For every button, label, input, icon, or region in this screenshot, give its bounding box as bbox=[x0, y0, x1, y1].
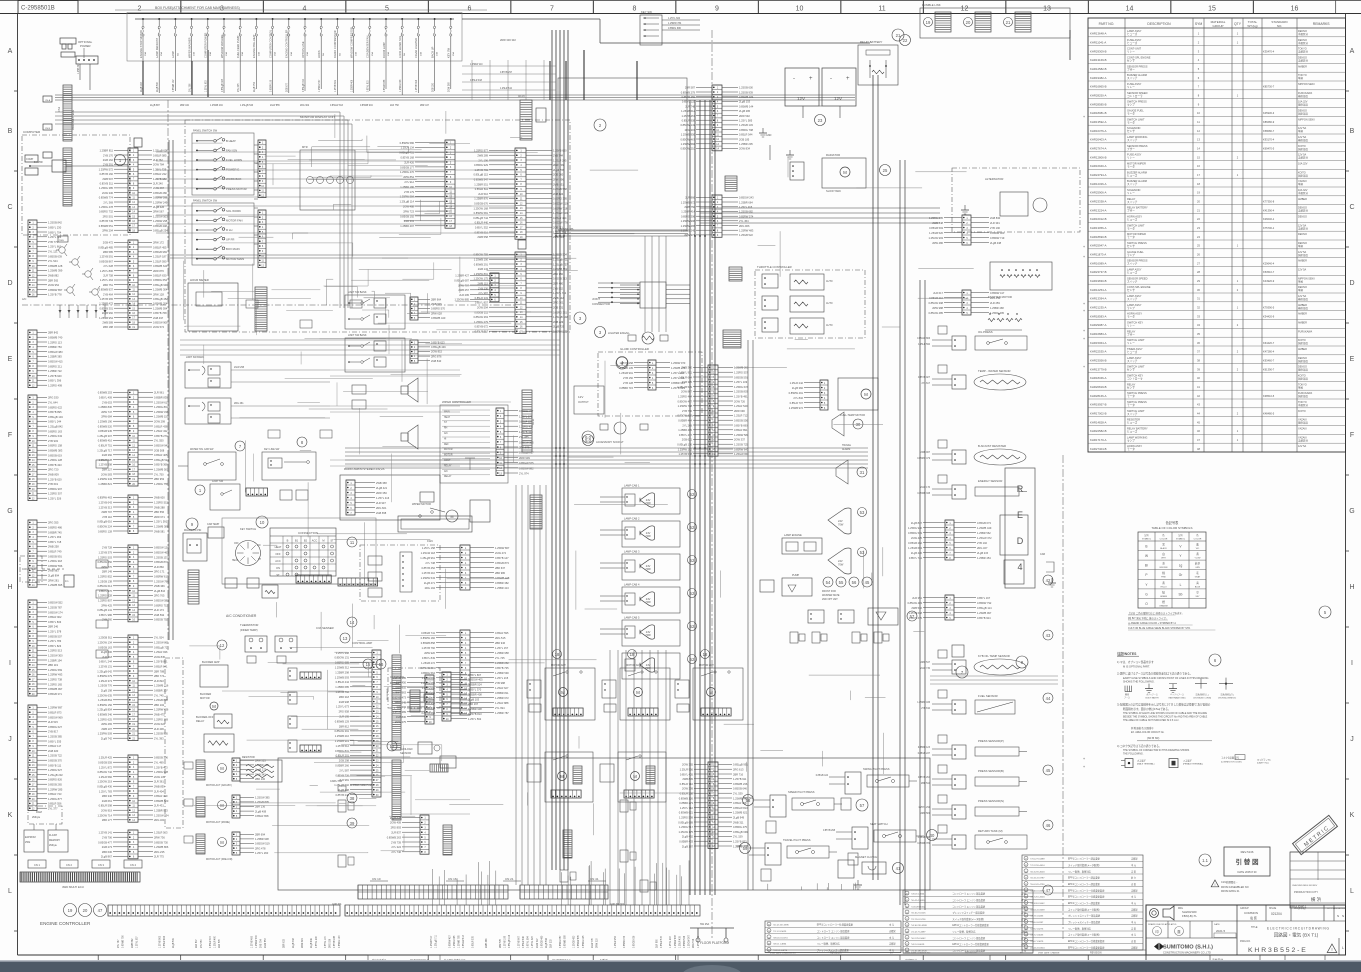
svg-text:NIPPON SEIKI: NIPPON SEIKI bbox=[1298, 118, 1315, 121]
svg-text:黒: 黒 bbox=[1162, 543, 1165, 547]
svg-text:1.25YL 806: 1.25YL 806 bbox=[100, 269, 114, 273]
svg-text:5: 5 bbox=[385, 6, 389, 13]
svg-text:0.85BR 811: 0.85BR 811 bbox=[495, 691, 509, 695]
svg-text:0.85BR 753: 0.85BR 753 bbox=[48, 345, 62, 349]
svg-text:0.85YB 945: 0.85YB 945 bbox=[334, 935, 336, 948]
svg-text:1.25WB 153: 1.25WB 153 bbox=[154, 415, 169, 419]
svg-text:RESISTOR: RESISTOR bbox=[242, 756, 255, 759]
svg-text:0.85LR 464: 0.85LR 464 bbox=[164, 935, 166, 948]
svg-text:M: M bbox=[220, 766, 224, 771]
svg-text:Sb: Sb bbox=[1179, 592, 1183, 596]
svg-text:2YL 750: 2YL 750 bbox=[154, 472, 164, 476]
svg-text:2RW 581: 2RW 581 bbox=[920, 813, 930, 815]
svg-text:15A: 15A bbox=[452, 52, 455, 56]
svg-text:0.85RG 622: 0.85RG 622 bbox=[48, 405, 63, 409]
svg-text:LOCK LEVER SOL: LOCK LEVER SOL bbox=[398, 35, 402, 58]
svg-text:M: M bbox=[843, 170, 847, 175]
svg-text:1.25GB 272: 1.25GB 272 bbox=[421, 661, 435, 665]
svg-text:ENGINE CONTROLLER: ENGINE CONTROLLER bbox=[285, 29, 289, 58]
svg-text:手配区分: 手配区分 bbox=[1298, 438, 1309, 442]
svg-text:KHR16089-A: KHR16089-A bbox=[1090, 261, 1107, 265]
svg-text:0.85YB 452: 0.85YB 452 bbox=[421, 566, 435, 570]
svg-text:2RG 966: 2RG 966 bbox=[739, 224, 750, 228]
svg-text:センサ: センサ bbox=[1127, 244, 1135, 248]
svg-text:ブザー: ブザー bbox=[1127, 67, 1135, 71]
svg-text:1.25GB 803: 1.25GB 803 bbox=[734, 390, 748, 394]
svg-text:2GW 622: 2GW 622 bbox=[154, 722, 166, 726]
svg-text:2LR 173: 2LR 173 bbox=[154, 608, 164, 612]
svg-text:PRESS MOTOR: PRESS MOTOR bbox=[226, 187, 247, 191]
svg-text:70W: 70W bbox=[645, 633, 651, 637]
svg-text:2YB 754: 2YB 754 bbox=[261, 938, 263, 948]
svg-text:断面積を示す。図示の他は0.5sqである。: 断面積を示す。図示の他は0.5sqである。 bbox=[1123, 707, 1171, 711]
svg-text:1.25GB 612: 1.25GB 612 bbox=[681, 109, 695, 113]
svg-text:黄: 黄 bbox=[1196, 552, 1199, 556]
svg-text:2LR 404: 2LR 404 bbox=[154, 789, 164, 793]
svg-text:2WB 289: 2WB 289 bbox=[477, 154, 488, 158]
svg-text:0.85WB 988: 0.85WB 988 bbox=[564, 935, 566, 948]
svg-text:A: A bbox=[8, 48, 13, 55]
svg-text:0.85YB 368: 0.85YB 368 bbox=[154, 463, 168, 467]
svg-text:センサ: センサ bbox=[1127, 368, 1135, 372]
svg-text:HI: HI bbox=[444, 438, 447, 440]
svg-text:0.85LgB 689: 0.85LgB 689 bbox=[678, 820, 693, 824]
svg-text:LAMP-CAB 1: LAMP-CAB 1 bbox=[624, 484, 640, 488]
svg-text:1.25GB 725: 1.25GB 725 bbox=[734, 443, 748, 447]
svg-text:1.25LR 425: 1.25LR 425 bbox=[99, 756, 113, 760]
svg-text:OFF: OFF bbox=[234, 543, 239, 545]
svg-text:52: 52 bbox=[690, 657, 695, 662]
svg-text:W-PRES SIDE PUMP: W-PRES SIDE PUMP bbox=[350, 784, 374, 787]
svg-text:0.85WB 263: 0.85WB 263 bbox=[387, 835, 402, 839]
svg-text:2LgB 960: 2LgB 960 bbox=[102, 311, 114, 315]
svg-text:1.25WB 919: 1.25WB 919 bbox=[335, 739, 350, 743]
svg-text:2LR 351: 2LR 351 bbox=[912, 596, 922, 600]
svg-text:0.85WB 346: 0.85WB 346 bbox=[98, 713, 113, 717]
svg-text:2YL 974: 2YL 974 bbox=[519, 472, 529, 476]
svg-text:2RW 128: 2RW 128 bbox=[153, 292, 164, 296]
svg-text:15: 15 bbox=[1208, 6, 1216, 13]
svg-text:1.25RW 996: 1.25RW 996 bbox=[681, 219, 696, 223]
svg-text:DWN DATE DRAWNG NO: DWN DATE DRAWNG NO bbox=[770, 952, 796, 955]
svg-text:4WD MULTI ECU: 4WD MULTI ECU bbox=[62, 885, 84, 889]
svg-text:MAGNETIC PIN: MAGNETIC PIN bbox=[184, 529, 202, 532]
svg-text:0.85LgB 721: 0.85LgB 721 bbox=[154, 645, 169, 649]
svg-text:1.25YL 260: 1.25YL 260 bbox=[255, 851, 269, 855]
svg-text:ISSUE: ISSUE bbox=[1269, 907, 1277, 910]
svg-text:C-2958501B: C-2958501B bbox=[21, 6, 55, 12]
svg-text:2LgB 729: 2LgB 729 bbox=[553, 325, 565, 329]
svg-text:DRAWN CHECKD APVD APVD: DRAWN CHECKD APVD APVD bbox=[1148, 923, 1177, 926]
svg-text:2YL 393: 2YL 393 bbox=[154, 737, 164, 741]
svg-text:2WB 258: 2WB 258 bbox=[48, 545, 59, 549]
svg-text:10A: 10A bbox=[193, 52, 196, 56]
svg-text:PANEL SWITCH SW: PANEL SWITCH SW bbox=[193, 129, 218, 133]
svg-text:2GW 807: 2GW 807 bbox=[681, 390, 693, 394]
svg-text:2YB 817: 2YB 817 bbox=[48, 730, 59, 734]
svg-text:38: 38 bbox=[350, 796, 355, 801]
svg-text:0.85LgB 310: 0.85LgB 310 bbox=[303, 78, 305, 92]
svg-text:B1: B1 bbox=[295, 539, 299, 543]
svg-text:I: I bbox=[1351, 660, 1353, 667]
svg-text:0.85GB 593: 0.85GB 593 bbox=[929, 226, 943, 230]
svg-text:RADIO AM/FM STEREO 24V,2A: RADIO AM/FM STEREO 24V,2A bbox=[344, 467, 385, 471]
svg-text:1.25LgB 114: 1.25LgB 114 bbox=[399, 200, 414, 204]
svg-text:国産部品: 国産部品 bbox=[1298, 112, 1309, 116]
svg-text:E L E C T R I C C I R C U I T: E L E C T R I C C I R C U I T D R A W I … bbox=[1267, 927, 1330, 931]
svg-text:AUTO: AUTO bbox=[826, 324, 833, 327]
svg-text:0.85LR 743: 0.85LR 743 bbox=[48, 792, 62, 796]
svg-text:0.85YB 768: 0.85YB 768 bbox=[153, 311, 167, 315]
svg-text:準拠: 準拠 bbox=[1298, 129, 1304, 133]
svg-text:MAGNET CLUTCH: MAGNET CLUTCH bbox=[855, 855, 877, 859]
svg-text:!: ! bbox=[1215, 883, 1216, 887]
svg-text:ON: ON bbox=[276, 566, 280, 570]
svg-text:A/C: A/C bbox=[444, 432, 448, 435]
svg-text:2LgB 187: 2LgB 187 bbox=[682, 844, 694, 848]
svg-text:KHR12326-A: KHR12326-A bbox=[1090, 182, 1107, 186]
svg-text:色記号表: 色記号表 bbox=[1166, 520, 1180, 525]
svg-text:K48480-5: K48480-5 bbox=[1263, 412, 1275, 416]
svg-text:HEAT: HEAT bbox=[275, 545, 282, 549]
svg-text:WIPER MOTOR: WIPER MOTOR bbox=[412, 502, 431, 506]
svg-text:KHR21235-A: KHR21235-A bbox=[1090, 306, 1107, 310]
svg-text:DWN DATE CHANGE: DWN DATE CHANGE bbox=[1038, 952, 1060, 955]
svg-text:HORN: HORN bbox=[317, 50, 321, 58]
svg-text:2RG 478: 2RG 478 bbox=[255, 846, 266, 850]
svg-text:45: 45 bbox=[865, 580, 870, 585]
svg-text:J: J bbox=[1350, 736, 1354, 743]
svg-text:0.85YL 823: 0.85YL 823 bbox=[48, 644, 62, 648]
svg-text:2BR 788: 2BR 788 bbox=[154, 669, 165, 673]
svg-text:0.85RG 732: 0.85RG 732 bbox=[99, 210, 114, 214]
svg-text:リレー: リレー bbox=[1127, 86, 1135, 89]
svg-text:0.85BR 715: 0.85BR 715 bbox=[619, 386, 633, 390]
svg-text:ヒューズ: ヒューズ bbox=[1127, 421, 1138, 425]
svg-text:VIO: VIO bbox=[1196, 548, 1200, 550]
svg-text:WT.(kg): WT.(kg) bbox=[1247, 24, 1257, 28]
svg-text:2LR 961: 2LR 961 bbox=[154, 391, 164, 395]
svg-text:緑: 緑 bbox=[1162, 590, 1165, 594]
svg-text:2RG 530: 2RG 530 bbox=[48, 396, 59, 400]
svg-text:1.25YB 141: 1.25YB 141 bbox=[98, 831, 112, 835]
svg-text:2YL 544: 2YL 544 bbox=[48, 259, 58, 263]
svg-text:H: H bbox=[1349, 584, 1354, 591]
svg-text:2YB 150: 2YB 150 bbox=[623, 376, 634, 380]
svg-text:1.25LgB 232: 1.25LgB 232 bbox=[48, 773, 63, 777]
svg-text:CROSS(NO CONN): CROSS(NO CONN) bbox=[1193, 698, 1211, 700]
svg-text:0.85GB 163: 0.85GB 163 bbox=[98, 645, 112, 649]
svg-text:0.85WB 338: 0.85WB 338 bbox=[917, 493, 930, 495]
svg-text:2YL 539: 2YL 539 bbox=[733, 792, 743, 796]
svg-text:1.25BR 383: 1.25BR 383 bbox=[48, 355, 62, 359]
svg-text:0.85LgB 744: 0.85LgB 744 bbox=[473, 216, 488, 220]
svg-text:1.25YL 725: 1.25YL 725 bbox=[153, 167, 167, 171]
svg-text:1.25LR 252: 1.25LR 252 bbox=[615, 935, 617, 948]
svg-text:'18.6.10 L6174: '18.6.10 L6174 bbox=[773, 937, 788, 939]
svg-text:準拠: 準拠 bbox=[1298, 385, 1304, 389]
svg-text:1.25YL 585: 1.25YL 585 bbox=[739, 119, 753, 123]
svg-text:1.25LR 187: 1.25LR 187 bbox=[153, 255, 167, 259]
svg-text:1.25WB 349: 1.25WB 349 bbox=[681, 229, 696, 233]
svg-text:'13.6.6 L4064: '13.6.6 L4064 bbox=[911, 894, 925, 896]
svg-text:KHR19957-B: KHR19957-B bbox=[1090, 403, 1107, 407]
svg-text:0.85GB 477: 0.85GB 477 bbox=[98, 840, 112, 844]
svg-text:1.25YB 851: 1.25YB 851 bbox=[154, 660, 168, 664]
svg-text:2LgB 215: 2LgB 215 bbox=[977, 551, 989, 555]
svg-text:1.25RW 584: 1.25RW 584 bbox=[681, 142, 696, 146]
svg-text:FLASH: FLASH bbox=[49, 834, 57, 837]
svg-text:0.85WB 858: 0.85WB 858 bbox=[421, 641, 436, 645]
svg-text:0.85YL 970: 0.85YL 970 bbox=[99, 589, 113, 593]
svg-text:0.85GB 556: 0.85GB 556 bbox=[734, 419, 748, 423]
svg-text:0.85LgB 141: 0.85LgB 141 bbox=[97, 608, 112, 612]
svg-text:0.85LR 585: 0.85LR 585 bbox=[153, 153, 167, 157]
svg-text:PRESS SENSOR(N): PRESS SENSOR(N) bbox=[978, 799, 1004, 803]
svg-text:2BR 177: 2BR 177 bbox=[102, 818, 113, 822]
svg-text:1.25GW 300: 1.25GW 300 bbox=[48, 654, 63, 658]
svg-text:'13.7.2 L6043: '13.7.2 L6043 bbox=[1030, 935, 1044, 937]
svg-text:24V: 24V bbox=[838, 519, 843, 523]
svg-text:1.25LR 604: 1.25LR 604 bbox=[679, 375, 693, 379]
svg-text:1.25RG 527: 1.25RG 527 bbox=[48, 768, 63, 772]
svg-text:1.25WB 785: 1.25WB 785 bbox=[459, 935, 461, 948]
svg-text:KHR10376-A: KHR10376-A bbox=[1090, 129, 1107, 133]
svg-text:1.25YB 643: 1.25YB 643 bbox=[98, 501, 112, 505]
svg-text:1.25YB 188: 1.25YB 188 bbox=[505, 935, 507, 948]
svg-text:'21.12.7 L4397: '21.12.7 L4397 bbox=[911, 932, 926, 934]
svg-text:2BR 340: 2BR 340 bbox=[102, 794, 113, 798]
svg-text:'12.10.6 L6580: '12.10.6 L6580 bbox=[1030, 890, 1045, 892]
svg-text:手配区分: 手配区分 bbox=[1298, 209, 1309, 213]
svg-text:0.85LR 640: 0.85LR 640 bbox=[523, 935, 525, 948]
svg-text:0.85RW 556: 0.85RW 556 bbox=[48, 564, 63, 568]
svg-text:SLOW TANK: SLOW TANK bbox=[826, 189, 841, 193]
svg-text:0.85LR 707: 0.85LR 707 bbox=[790, 401, 804, 405]
svg-text:2BR 842: 2BR 842 bbox=[48, 331, 59, 335]
svg-text:AMBER: AMBER bbox=[1298, 198, 1307, 201]
svg-text:1.25RG 503: 1.25RG 503 bbox=[98, 555, 113, 559]
svg-text:1.25YL 158: 1.25YL 158 bbox=[422, 546, 436, 550]
svg-text:0.85GB 688: 0.85GB 688 bbox=[384, 79, 386, 92]
svg-text:ST: ST bbox=[276, 573, 280, 577]
svg-text:0.85WB 937: 0.85WB 937 bbox=[99, 288, 114, 292]
svg-text:1.25LR 936: 1.25LR 936 bbox=[154, 650, 168, 654]
svg-text:0.85YB 511: 0.85YB 511 bbox=[100, 182, 114, 186]
svg-text:55: 55 bbox=[839, 580, 844, 585]
svg-text:0.85LgB 446: 0.85LgB 446 bbox=[431, 345, 446, 349]
svg-text:2GW 474: 2GW 474 bbox=[495, 551, 507, 555]
svg-text:準拠: 準拠 bbox=[1298, 288, 1304, 292]
svg-text:0.85YB 147: 0.85YB 147 bbox=[495, 556, 509, 560]
svg-text:Weight(kg): Weight(kg) bbox=[1294, 907, 1306, 910]
svg-text:KHR22582-B: KHR22582-B bbox=[1090, 429, 1107, 433]
svg-text:021204: 021204 bbox=[1271, 912, 1282, 916]
svg-text:0.85YL 170: 0.85YL 170 bbox=[325, 936, 327, 948]
svg-text:THERMISTOR: THERMISTOR bbox=[240, 623, 258, 627]
svg-text:(60 B 60): (60 B 60) bbox=[1147, 736, 1159, 740]
svg-text:2YL 644: 2YL 644 bbox=[48, 401, 58, 405]
svg-text:1.25LgB 757: 1.25LgB 757 bbox=[553, 262, 568, 266]
svg-text:LAMP ENGINE: LAMP ENGINE bbox=[784, 533, 802, 537]
svg-text:R LH: R LH bbox=[226, 228, 232, 232]
svg-text:MTR: MTR bbox=[302, 145, 308, 149]
svg-text:RETURN TANK (M): RETURN TANK (M) bbox=[978, 829, 1003, 833]
svg-text:0.85GB 991: 0.85GB 991 bbox=[48, 554, 62, 558]
svg-text:SYM: SYM bbox=[1195, 22, 1203, 26]
svg-text:DENSO: DENSO bbox=[1298, 216, 1307, 219]
svg-text:2LgB 847: 2LgB 847 bbox=[911, 521, 923, 525]
svg-text:FROM ASSEMBLED NO: FROM ASSEMBLED NO bbox=[1221, 886, 1249, 889]
svg-text:2WB 366: 2WB 366 bbox=[154, 584, 165, 588]
svg-text:A/C: A/C bbox=[22, 297, 26, 301]
svg-text:0.85GW 552: 0.85GW 552 bbox=[48, 601, 63, 605]
svg-text:0.85LgB 699: 0.85LgB 699 bbox=[733, 830, 748, 834]
svg-text:B: B bbox=[8, 128, 13, 135]
svg-text:12V: 12V bbox=[578, 395, 583, 399]
svg-text:0.85BR 153: 0.85BR 153 bbox=[624, 935, 626, 948]
svg-text:K H R 3 B 5 5 2 - E: K H R 3 B 5 5 2 - E bbox=[1248, 947, 1306, 954]
svg-text:47: 47 bbox=[1046, 888, 1051, 893]
svg-text:1.25RW 509: 1.25RW 509 bbox=[98, 732, 113, 736]
svg-text:B2: B2 bbox=[304, 539, 308, 543]
svg-text:L: L bbox=[8, 888, 12, 895]
svg-text:0.85BR 745: 0.85BR 745 bbox=[48, 530, 62, 534]
svg-text:1.25BR 468: 1.25BR 468 bbox=[990, 306, 1004, 310]
svg-text:2RW 694: 2RW 694 bbox=[302, 938, 304, 948]
svg-text:0.85LR 598: 0.85LR 598 bbox=[99, 804, 113, 808]
svg-text:0.85LR 891: 0.85LR 891 bbox=[734, 428, 748, 432]
svg-text:B: B bbox=[287, 539, 289, 543]
svg-text:0.85RW 318: 0.85RW 318 bbox=[553, 206, 568, 210]
svg-text:センサ: センサ bbox=[1127, 59, 1135, 63]
svg-text:2WB 797: 2WB 797 bbox=[101, 510, 112, 514]
svg-text:1.25RG 606: 1.25RG 606 bbox=[400, 79, 402, 92]
svg-text:0.85YL 244: 0.85YL 244 bbox=[99, 660, 113, 664]
svg-text:KHR25906-A: KHR25906-A bbox=[1090, 191, 1107, 195]
svg-text:1.25LgB 307: 1.25LgB 307 bbox=[97, 434, 112, 438]
svg-text:1.25YB 379: 1.25YB 379 bbox=[98, 551, 112, 555]
svg-text:1.25LR 627: 1.25LR 627 bbox=[495, 686, 509, 690]
svg-text:K41390-4: K41390-4 bbox=[1263, 208, 1275, 212]
svg-text:2GW 295: 2GW 295 bbox=[234, 366, 245, 369]
svg-text:LAMP-CAB 3: LAMP-CAB 3 bbox=[624, 550, 640, 554]
svg-text:0.85GW 467: 0.85GW 467 bbox=[680, 137, 695, 141]
svg-text:1.25WB 304: 1.25WB 304 bbox=[153, 288, 168, 292]
svg-text:0.85WB 551: 0.85WB 551 bbox=[99, 224, 114, 228]
svg-text:0.85RG 715: 0.85RG 715 bbox=[154, 603, 169, 607]
svg-text:1.25GB 954: 1.25GB 954 bbox=[99, 316, 113, 320]
svg-text:2GB 472: 2GB 472 bbox=[103, 241, 114, 245]
svg-text:2LgB 506: 2LgB 506 bbox=[157, 81, 159, 92]
svg-text:(MALE TERMINAL): (MALE TERMINAL) bbox=[1137, 763, 1155, 766]
svg-text:補修部品: 補修部品 bbox=[1298, 94, 1309, 98]
svg-text:GRN: GRN bbox=[1195, 567, 1200, 569]
svg-text:2WB 358: 2WB 358 bbox=[376, 481, 387, 485]
svg-text:10: 10 bbox=[260, 520, 265, 525]
svg-text:KHR13394-A: KHR13394-A bbox=[1090, 297, 1107, 301]
svg-text:DEF: DEF bbox=[444, 444, 449, 446]
svg-text:'10.4.14 L6316: '10.4.14 L6316 bbox=[911, 900, 926, 902]
svg-text:1.25GW 134: 1.25GW 134 bbox=[97, 641, 112, 645]
svg-text:0.85GW 759: 0.85GW 759 bbox=[473, 253, 488, 257]
svg-text:0.85GB 639: 0.85GB 639 bbox=[48, 254, 62, 258]
svg-text:0.85BR 382: 0.85BR 382 bbox=[495, 581, 509, 585]
svg-text:FUEL SENSOR: FUEL SENSOR bbox=[978, 694, 998, 698]
svg-text:57: 57 bbox=[910, 614, 915, 619]
svg-text:国産部品: 国産部品 bbox=[1298, 377, 1309, 381]
svg-text:'21.7.10 L5726: '21.7.10 L5726 bbox=[911, 919, 926, 921]
svg-text:ENERGY SENSOR: ENERGY SENSOR bbox=[978, 479, 1002, 483]
svg-text:0.85GB 280: 0.85GB 280 bbox=[153, 191, 167, 195]
svg-text:CONT: CONT bbox=[444, 460, 451, 462]
svg-text:44: 44 bbox=[1046, 696, 1051, 701]
svg-text:RADIO COMPRESSOR: RADIO COMPRESSOR bbox=[333, 30, 337, 58]
svg-text:1.25GW 615: 1.25GW 615 bbox=[154, 400, 169, 404]
svg-text:手配区分: 手配区分 bbox=[1298, 59, 1309, 63]
svg-text:2GB 508: 2GB 508 bbox=[154, 448, 165, 452]
svg-text:2Mbyte: 2Mbyte bbox=[32, 816, 41, 819]
svg-text:23: 23 bbox=[818, 118, 823, 123]
svg-text:2YB 739: 2YB 739 bbox=[391, 840, 402, 844]
svg-text:2YL 694: 2YL 694 bbox=[495, 706, 505, 710]
svg-text:0.85WB 144: 0.85WB 144 bbox=[739, 104, 754, 108]
svg-text:1.25YB 578: 1.25YB 578 bbox=[678, 452, 692, 456]
svg-text:CN 1: CN 1 bbox=[34, 863, 40, 867]
svg-text:補修部品: 補修部品 bbox=[1298, 297, 1309, 301]
svg-text:56: 56 bbox=[852, 580, 857, 585]
svg-text:0.85WB 383: 0.85WB 383 bbox=[48, 449, 63, 453]
svg-text:2WB 862: 2WB 862 bbox=[132, 938, 134, 948]
svg-text:0.85YB 160: 0.85YB 160 bbox=[99, 172, 113, 176]
svg-text:KHR16865-B: KHR16865-B bbox=[1090, 85, 1107, 89]
svg-text:ENGINE STOP MOTOR: ENGINE STOP MOTOR bbox=[139, 30, 143, 58]
svg-text:WASHER MATE: WASHER MATE bbox=[822, 594, 840, 597]
svg-text:0.85GB 873: 0.85GB 873 bbox=[495, 561, 509, 565]
svg-text:1.25RW 973: 1.25RW 973 bbox=[671, 361, 686, 365]
svg-text:COMMON: COMMON bbox=[1244, 911, 1258, 915]
svg-text:3) 配線図上の記号は電線径を示し記号右に2ケタした数値は: 3) 配線図上の記号は電線径を示し記号右に2ケタした数値は記憶番号 及び電線の bbox=[1117, 703, 1211, 707]
svg-text:0.85YB 459: 0.85YB 459 bbox=[681, 95, 695, 99]
svg-text:2RW 486: 2RW 486 bbox=[932, 241, 943, 245]
svg-text:(CONNECTOR CODE): (CONNECTOR CODE) bbox=[1221, 762, 1242, 764]
svg-text:SHOWS THE FOLLOWING.: SHOWS THE FOLLOWING. bbox=[1123, 681, 1155, 684]
svg-text:2YL 269: 2YL 269 bbox=[682, 423, 692, 427]
svg-text:KHR13224-A: KHR13224-A bbox=[1090, 208, 1107, 212]
svg-text:0.85RG 163: 0.85RG 163 bbox=[48, 429, 63, 433]
svg-text:2RG 235: 2RG 235 bbox=[154, 850, 165, 854]
svg-text:QTY: QTY bbox=[1234, 22, 1242, 26]
svg-text:0.85GW 969: 0.85GW 969 bbox=[48, 715, 63, 719]
svg-text:15A: 15A bbox=[371, 52, 374, 56]
svg-text:2YB 464: 2YB 464 bbox=[103, 292, 114, 296]
svg-text:1.25YL 653: 1.25YL 653 bbox=[206, 80, 208, 92]
svg-text:0.85RG 486: 0.85RG 486 bbox=[48, 526, 63, 530]
svg-text:0.85GB 177: 0.85GB 177 bbox=[400, 165, 414, 169]
svg-text:2LgB 426: 2LgB 426 bbox=[153, 205, 165, 209]
svg-text:AMBER: AMBER bbox=[1298, 348, 1307, 351]
svg-text:1.25LR 888: 1.25LR 888 bbox=[495, 701, 509, 705]
svg-text:2GW 594: 2GW 594 bbox=[477, 306, 489, 310]
svg-text:2LgB 343: 2LgB 343 bbox=[293, 937, 295, 948]
svg-text:リレー: リレー bbox=[1127, 325, 1135, 328]
svg-text:2BR 535: 2BR 535 bbox=[500, 938, 502, 948]
svg-text:1.25BR 590: 1.25BR 590 bbox=[495, 671, 509, 675]
svg-text:手配区分: 手配区分 bbox=[1298, 191, 1309, 195]
svg-text:14: 14 bbox=[350, 620, 355, 625]
svg-text:AMBER: AMBER bbox=[1298, 322, 1307, 325]
svg-text:2RG 194: 2RG 194 bbox=[425, 586, 436, 590]
